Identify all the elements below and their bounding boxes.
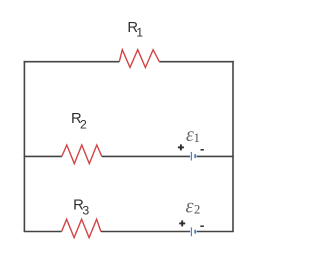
svg-text:ε: ε: [186, 196, 194, 218]
resistor R2: [62, 145, 102, 164]
resistor R1: [119, 50, 159, 68]
wire: bottom branch center segment: [101, 231, 190, 233]
wire: top branch right segment: [159, 61, 233, 63]
battery E1 long plate: [190, 152, 192, 161]
svg-text:2: 2: [194, 203, 200, 217]
resistor R3: [62, 219, 101, 237]
wire: left rail: [23, 61, 25, 232]
wire: middle branch right segment: [197, 155, 234, 157]
wire: bottom branch right segment: [197, 231, 234, 233]
minus sign E1: [201, 149, 204, 151]
svg-text:2: 2: [80, 118, 87, 132]
wire: right rail: [232, 61, 234, 232]
wire: top branch left segment: [24, 61, 120, 63]
wire: bottom branch left segment: [24, 231, 62, 233]
battery E2 short plate: [194, 230, 196, 234]
battery E2 long plate: [190, 227, 192, 236]
minus sign E2: [200, 225, 204, 227]
svg-text:1: 1: [194, 131, 200, 145]
wire: middle branch left segment: [24, 155, 62, 157]
svg-text:1: 1: [136, 25, 143, 39]
plus sign E1: [178, 144, 184, 150]
battery E1 short plate: [194, 154, 196, 158]
svg-text:3: 3: [82, 204, 89, 218]
plus sign E2: [179, 220, 185, 226]
wire: middle branch center segment: [102, 155, 190, 157]
